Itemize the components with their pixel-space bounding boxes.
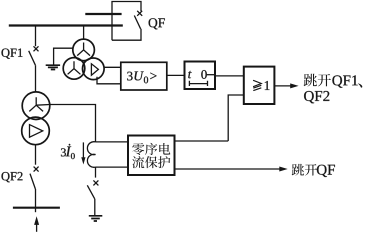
OR gate output arrow <box>274 85 291 87</box>
wire bus to QF1 <box>35 26 37 47</box>
breaker QF2 blade <box>30 174 35 189</box>
OR gate label >=1 <box>253 80 261 90</box>
breaker QF1 blade <box>29 51 36 65</box>
wire QF2 to feeder <box>35 189 37 212</box>
label 3I0 <box>61 144 75 159</box>
relay label line 1 <box>132 143 170 155</box>
wire QF loop left and top <box>112 2 141 41</box>
label QF <box>149 18 165 29</box>
label trip QF <box>292 164 317 176</box>
wire VT delta to 3U0 relay upper <box>104 66 121 68</box>
wire switch to ground <box>94 199 96 216</box>
earthing switch blade <box>87 185 94 199</box>
relay zero-sequence current protection box <box>128 136 175 176</box>
VT primary winding (wye) <box>73 39 95 61</box>
wire bus to VT <box>83 26 85 40</box>
bus 2 (main busbar) <box>9 24 123 26</box>
breaker QF2 contact cross <box>34 167 39 172</box>
wire CT to earthing switch <box>95 167 97 178</box>
transformer T secondary winding (delta) <box>22 117 50 145</box>
feeder line <box>13 207 60 209</box>
ground at transformer neutral <box>89 216 103 221</box>
VT open-delta winding <box>83 58 105 80</box>
feeder arrow <box>36 224 38 232</box>
earthing switch contact cross <box>93 180 98 185</box>
wire QF loop bottom <box>112 29 141 40</box>
zero-sequence CT winding <box>87 142 95 168</box>
breaker QF1 contact cross <box>34 46 39 51</box>
wire VT to ground <box>54 48 73 65</box>
label 3U0 <box>127 72 156 84</box>
label trip QF1 QF2 line 2 <box>304 91 329 103</box>
wire 3U0 to timer <box>167 74 185 76</box>
breaker QF contact cross <box>137 11 142 16</box>
wire QF1 to transformer <box>35 65 37 92</box>
label QF1 <box>2 49 23 59</box>
transformer T primary winding (wye) <box>22 92 50 120</box>
wire relay to trip QF arrow <box>175 168 280 170</box>
timer t box <box>185 62 216 90</box>
wire relay to OR junction <box>175 140 229 142</box>
ground at VT neutral <box>46 65 60 69</box>
OR gate box <box>244 67 275 104</box>
label QF2 <box>2 172 23 182</box>
breaker QF blade <box>134 16 140 29</box>
arrow 3I0 direction <box>82 142 84 158</box>
wire CT to relay lower <box>96 166 129 168</box>
relay 3U0 box <box>121 62 167 90</box>
relay label line 2 <box>132 156 170 168</box>
VT secondary winding (wye) <box>63 58 85 80</box>
label trip QF1 QF2 line 1 <box>304 74 331 87</box>
timer labels t 0 <box>188 70 207 79</box>
bus 1 (upper short busbar) <box>85 13 121 15</box>
wire relay output to OR gate <box>228 95 244 141</box>
wire T to QF2 <box>35 145 37 165</box>
wire timer to OR gate <box>215 75 244 77</box>
wire T neutral to CT <box>36 105 95 142</box>
wire VT delta to 3U0 relay lower <box>97 77 121 84</box>
timer delay bracket <box>189 81 207 86</box>
wire CT to relay upper <box>96 141 129 143</box>
